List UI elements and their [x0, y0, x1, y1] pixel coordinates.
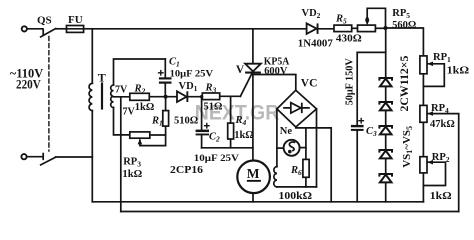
svg-text:7V: 7V — [123, 107, 136, 118]
motor field coil — [274, 167, 277, 187]
capacitor C1 (electrolytic) — [164, 59, 166, 77]
zener VS5 — [379, 174, 392, 177]
svg-text:V: V — [236, 64, 245, 76]
wire rail B: VD1 cathode to R3 — [188, 96, 202, 98]
wire secondary center tap to R2 — [114, 96, 130, 98]
switch QS top pole contact tick — [42, 29, 44, 35]
RP4 wiper wire to outer rail — [427, 114, 458, 212]
svg-text:220V: 220V — [16, 77, 41, 92]
wire top rail to transformer primary top — [91, 29, 93, 84]
wire switch to fuse FU — [56, 28, 67, 30]
outer bottom rail — [121, 211, 459, 213]
zener diodes VS1..VS5 — [379, 78, 392, 182]
resistor R3 body — [202, 93, 219, 100]
wire bridge left corner down to field coil — [276, 109, 278, 167]
neon lamp Ne left stub — [277, 147, 284, 149]
svg-text:1kΩ: 1kΩ — [234, 130, 254, 141]
RP4 wiper arrowhead — [427, 111, 433, 116]
capacitor C2 leads — [201, 97, 203, 148]
transformer T secondary winding (two 7V sections) — [111, 85, 114, 107]
right column between potentiometers — [422, 74, 424, 202]
RP1 wiper tie — [423, 64, 444, 87]
resistor R2 body — [130, 93, 150, 100]
svg-text:QS: QS — [37, 15, 52, 27]
rheostat RP5 body — [358, 25, 376, 32]
svg-text:1kΩ: 1kΩ — [122, 169, 142, 180]
junction dot C2 top — [200, 95, 203, 98]
svg-text:100kΩ: 100kΩ — [279, 191, 313, 202]
resistor R6 body — [303, 159, 309, 177]
switch QS mechanical link (dashed) — [48, 37, 50, 152]
fuse FU body — [67, 28, 84, 30]
resistor R1 body — [163, 111, 169, 127]
wire primary bottom down to inner bottom rail — [91, 111, 93, 202]
zener VS3 — [379, 126, 392, 129]
svg-text:VC: VC — [301, 78, 318, 90]
svg-text:T: T — [98, 71, 106, 85]
svg-text:FU: FU — [68, 14, 83, 26]
svg-text:1kΩ: 1kΩ — [135, 102, 155, 113]
wire top rail FU to VD2 anode — [84, 28, 307, 30]
resistor R1 leads — [165, 97, 167, 146]
svg-text:1kΩ: 1kΩ — [447, 66, 470, 77]
wire motor bottom to inner rail — [252, 193, 254, 202]
capacitor C1 plates — [159, 77, 172, 79]
switch QS lower blade — [41, 157, 56, 165]
wire coil bottom rail to bridge right corner riser — [277, 186, 317, 188]
junction dot at RP5 output — [383, 26, 387, 30]
potentiometer RP2 body — [420, 157, 427, 173]
wire N terminal to switch QS lower pole — [27, 156, 43, 158]
wire junction to right column — [386, 28, 424, 56]
svg-text:7V: 7V — [115, 85, 128, 96]
svg-text:600V: 600V — [264, 66, 288, 77]
svg-text:VS1~VS5: VS1~VS5 — [401, 126, 414, 168]
wire center tap junction down to outer bottom rail — [120, 97, 122, 212]
RP2 wiper arrowhead — [427, 160, 433, 165]
wire C2/R4 bottom to SCR-motor line — [202, 147, 253, 149]
svg-text:2CP16: 2CP16 — [170, 165, 203, 176]
RP5 wiper arrowhead — [365, 20, 370, 26]
wire L terminal to switch QS top pole — [27, 28, 42, 30]
junction dot at node A — [164, 95, 168, 99]
svg-text:1N4007: 1N4007 — [298, 38, 333, 49]
svg-text:1kΩ: 1kΩ — [430, 191, 452, 202]
switch QS lower pole contact tick — [42, 154, 44, 160]
transformer T primary winding — [89, 83, 92, 110]
resistor R4 body — [228, 123, 234, 139]
capacitor C1 polarity plus — [158, 72, 164, 73]
wire bridge bottom corner to right-down branch — [296, 127, 331, 202]
diode VD2 triangle and bar — [307, 23, 317, 34]
neon lamp Ne electrodes — [289, 142, 295, 151]
neon lamp Ne right stub — [300, 147, 306, 149]
RP1 wiper arrowhead — [427, 62, 433, 67]
svg-text:10μF 25V: 10μF 25V — [170, 69, 214, 80]
svg-text:47kΩ: 47kΩ — [430, 119, 455, 130]
wire SCR cathode to bridge VC top corner — [253, 75, 296, 91]
svg-text:10μF 25V: 10μF 25V — [194, 153, 239, 164]
thyristor V anode lead from top rail — [252, 29, 254, 64]
RP5 wiper loop to junction — [367, 8, 385, 26]
RP2 wiper tie — [423, 162, 445, 185]
transformer T core — [101, 84, 103, 109]
svg-text:510Ω: 510Ω — [174, 116, 198, 127]
diode VD2 leads — [319, 28, 335, 30]
RP3 wiper arrowhead — [138, 139, 143, 145]
wire secondary top up and right to C1 — [114, 59, 166, 85]
zener VS1 — [379, 78, 392, 81]
svg-text:51Ω: 51Ω — [204, 101, 223, 112]
resistor R6 bottom lead — [305, 177, 307, 187]
potentiometer RP3 body — [130, 132, 150, 138]
zener VS2 — [379, 102, 392, 105]
svg-text:M: M — [247, 166, 260, 181]
wire SCR gate diagonal — [240, 73, 252, 96]
wire secondary bottom down to RP3 left terminal — [114, 108, 130, 135]
capacitor C2 plates — [196, 130, 209, 133]
thyristor V triangle and cathode bar — [245, 64, 261, 72]
wire R5 to RP5 — [352, 27, 358, 29]
potentiometer RP1 body — [420, 56, 427, 74]
wire rail B: node A to VD1 anode — [149, 96, 177, 98]
wire C3 branch from zener line — [357, 52, 386, 125]
capacitor C3 bottom lead — [356, 131, 358, 202]
svg-text:Ne: Ne — [280, 126, 293, 137]
neon lamp Ne circle — [284, 140, 300, 156]
bridge inner diode triangle and bar — [291, 103, 301, 113]
svg-text:560Ω: 560Ω — [392, 20, 416, 31]
svg-text:2CW112×5: 2CW112×5 — [397, 56, 411, 112]
capacitor C3 plates — [351, 125, 364, 127]
wire RP5 to junction — [375, 27, 385, 29]
svg-text:50μF 150V: 50μF 150V — [344, 58, 355, 106]
wire RP3 right terminal to R1 bottom — [150, 134, 166, 136]
thyristor V cathode line down to motor — [252, 74, 254, 161]
resistor R4 leads — [230, 96, 232, 148]
wire bridge bottom rail down to R6 — [305, 128, 307, 159]
zener chain line VS1-VS5 — [385, 28, 387, 202]
switch QS top blade — [41, 29, 56, 37]
zener VS4 — [379, 150, 392, 153]
node: lower input terminal N — [21, 154, 26, 159]
motor M circle — [237, 161, 270, 194]
svg-text:430Ω: 430Ω — [336, 34, 362, 45]
wire rail B: R3 right to SCR gate bend — [220, 95, 241, 97]
diode VD1 triangle and bar — [177, 91, 187, 102]
inner bottom rail — [92, 201, 423, 203]
bridge VC diamond — [277, 90, 317, 127]
wire switch lower pole to transformer primary bottom — [56, 156, 93, 158]
potentiometer RP4 body — [420, 105, 427, 122]
wire bridge right corner down — [316, 109, 318, 187]
capacitor C3 polarity plus — [358, 120, 364, 121]
resistor R5 body — [334, 25, 352, 32]
node: left input terminal L — [22, 26, 27, 31]
bridge VC inner diode wire — [284, 107, 309, 109]
wire RP3 wiper tie loop — [140, 140, 166, 145]
capacitor C2 polarity plus — [204, 125, 210, 126]
